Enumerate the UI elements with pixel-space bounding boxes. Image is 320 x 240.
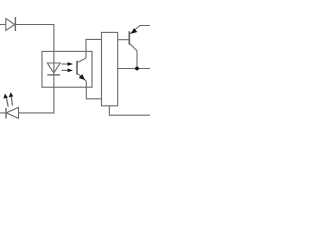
wire R1 right pin to transistor base	[118, 39, 129, 41]
wire R1 bottom pin to output bottom-right	[109, 106, 150, 115]
LED D3 emission arrow left	[3, 94, 8, 107]
phototransistor Q1	[77, 58, 86, 81]
LED D3 bottom-left	[0, 107, 19, 118]
wire R1 right pin to output right	[118, 68, 150, 70]
LED D3 emission arrow right	[9, 92, 14, 105]
wire input top-left	[0, 24, 6, 26]
wire phototransistor emitter to R1 left pin lower	[86, 81, 101, 99]
wire phototransistor collector to R1 left pin	[86, 39, 102, 58]
wire optocoupler LED cathode down to LED D3	[19, 75, 54, 113]
optocoupler LED D2	[47, 63, 60, 75]
wire D1 to optocoupler LED anode	[15, 25, 54, 64]
diode D1	[6, 17, 16, 31]
transistor Q2 (PNP)	[129, 26, 150, 69]
optocoupler light arrow upper	[62, 62, 74, 66]
optocoupler U1 box	[42, 51, 92, 87]
resistor network R1 box	[102, 32, 118, 105]
junction node	[135, 67, 139, 71]
optocoupler light arrow lower	[62, 69, 74, 73]
